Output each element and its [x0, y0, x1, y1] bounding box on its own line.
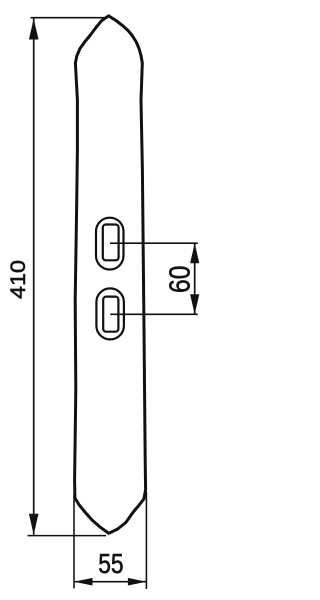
part outline (chisel point): [75, 16, 146, 534]
dim 60: upper hole centre line: [110, 242, 198, 244]
dim 410: bottom extension line: [28, 535, 106, 537]
hole 1 inner slot: [103, 225, 119, 261]
dim 55: arrow right: [128, 578, 146, 586]
dim 60: dimension line: [194, 243, 196, 314]
svg-text:60: 60: [165, 266, 197, 294]
svg-text:55: 55: [98, 548, 123, 579]
dim 410: arrow down: [29, 514, 39, 535]
dim 60: lower hole centre line: [110, 313, 198, 315]
dim 55: arrow left: [74, 578, 93, 586]
dim 410: dimension line: [33, 19, 35, 535]
dim 410: top extension line: [31, 17, 109, 19]
hole 1 outer obround: [96, 218, 124, 270]
hole 2 inner slot: [103, 297, 118, 332]
dim 55: dimension line: [74, 581, 146, 583]
dim 55: left extension line: [73, 494, 75, 588]
svg-text:410: 410: [6, 260, 30, 299]
dim 60: arrow up: [190, 243, 199, 263]
dim 410: arrow up: [29, 19, 39, 40]
dim 60: arrow down: [190, 294, 199, 314]
dim 55: right extension line: [145, 492, 147, 589]
hole 2 outer obround: [96, 288, 124, 339]
